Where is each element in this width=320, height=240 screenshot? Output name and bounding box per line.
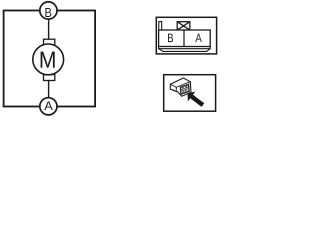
3D connector silhouette [170,78,191,96]
motor brush terminal bottom [44,75,55,81]
node B label [45,8,51,17]
cavity label A [195,34,202,43]
wire motor to A [48,79,50,98]
wire loop rectangle [4,11,96,107]
node B terminal circle [40,2,57,19]
node A label [44,101,52,110]
3D connector mating face [180,84,189,94]
connector view box frame [164,75,216,112]
mating face cavities [181,85,189,94]
connector pinout box frame [156,17,216,54]
connector cavity row [159,30,211,47]
connector lock tab [159,22,162,31]
cavity divider [183,30,185,47]
3D connector top face edges [170,82,190,92]
connector housing lip [159,47,211,52]
connector lock X-box [177,22,190,30]
wire B to motor [48,19,50,40]
cavity label B [168,34,173,43]
motor brush terminal top [44,39,55,46]
motor label M [41,52,55,68]
motor M1 body [33,44,64,75]
pointer arrow [188,92,205,107]
node A terminal circle [40,98,57,115]
